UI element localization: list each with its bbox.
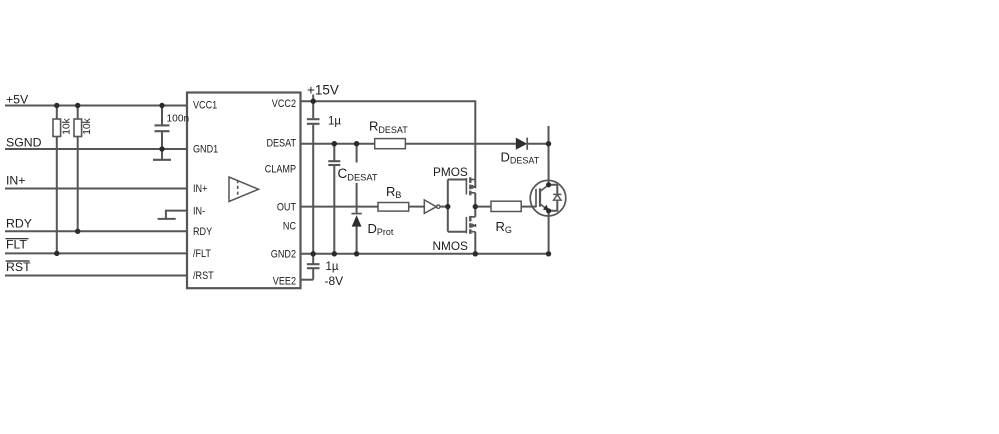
wire IN+ net bbox=[5, 188, 187, 190]
junction driver output node bbox=[473, 204, 478, 209]
svg-text:NC: NC bbox=[283, 221, 296, 233]
wire +5V net bbox=[5, 105, 187, 107]
junction +5V/100n bbox=[159, 103, 164, 108]
wire VCC2 rail down to cap bbox=[312, 101, 314, 118]
junction SGND/100n bbox=[159, 146, 164, 151]
transistor Q3 IGBT with freewheel diode bbox=[530, 180, 566, 216]
junction DESAT/CDESAT bbox=[332, 141, 337, 146]
IC U1 gate driver box bbox=[187, 93, 301, 289]
svg-text:+15V: +15V bbox=[307, 82, 339, 97]
capacitor 100n VCC1-GND1 bbox=[155, 106, 170, 150]
svg-text:DESAT: DESAT bbox=[266, 138, 296, 150]
svg-text:RST: RST bbox=[6, 260, 31, 274]
wire buffer to gate bus bbox=[440, 206, 448, 208]
wire RG to IGBT gate bbox=[521, 206, 536, 208]
transistor Q2 NMOS bbox=[448, 207, 476, 254]
svg-text:SGND: SGND bbox=[6, 136, 42, 150]
junction +5V/R1 bbox=[54, 103, 59, 108]
svg-text:CLAMP: CLAMP bbox=[265, 164, 297, 176]
svg-text:VCC1: VCC1 bbox=[193, 100, 218, 112]
junction GND2/emitter bbox=[546, 251, 551, 256]
wire /RST net bbox=[5, 275, 187, 277]
svg-text:RDY: RDY bbox=[6, 217, 32, 231]
svg-text:NMOS: NMOS bbox=[433, 239, 469, 253]
wire collector stub up bbox=[548, 126, 550, 144]
svg-text:1µ: 1µ bbox=[328, 116, 341, 128]
wire SGND net bbox=[5, 148, 187, 150]
wire gate bus vertical bbox=[447, 180, 449, 232]
junction gate bus bbox=[445, 204, 450, 209]
junction RDY/R2 bbox=[75, 229, 80, 234]
svg-text:IN+: IN+ bbox=[193, 184, 208, 196]
svg-text:RDESAT: RDESAT bbox=[369, 119, 408, 135]
svg-text:10k: 10k bbox=[61, 117, 72, 134]
svg-text:+5V: +5V bbox=[6, 93, 29, 107]
wire DESAT net bbox=[301, 143, 375, 145]
wire /FLT net bbox=[5, 252, 187, 254]
capacitor CDESAT branch bbox=[328, 144, 340, 254]
diode DDESAT bbox=[516, 138, 527, 150]
wire RDY net bbox=[5, 230, 187, 232]
svg-text:RB: RB bbox=[386, 184, 401, 200]
IN- pin tie-low symbol bbox=[158, 211, 187, 219]
svg-text:10k: 10k bbox=[82, 117, 93, 134]
svg-text:VEE2: VEE2 bbox=[273, 276, 297, 288]
junction DESAT/collector bbox=[546, 141, 551, 146]
wire VEE2 pin bbox=[301, 279, 314, 281]
svg-text:IN+: IN+ bbox=[6, 174, 25, 188]
svg-text:VCC2: VCC2 bbox=[272, 98, 297, 110]
junction GND2/CDESAT bbox=[332, 251, 337, 256]
svg-text:/FLT: /FLT bbox=[193, 248, 211, 260]
inverter buffer U2 bbox=[424, 200, 440, 214]
wire IGBT collector from DESAT node bbox=[548, 144, 550, 185]
junction GND2/DProt bbox=[354, 251, 359, 256]
svg-text:GND1: GND1 bbox=[193, 144, 219, 156]
wire DESAT to diode bbox=[405, 143, 515, 145]
resistor pullup 10k to RDY bbox=[74, 106, 82, 232]
svg-text:1µ: 1µ bbox=[326, 261, 339, 273]
svg-text:/RST: /RST bbox=[193, 271, 214, 283]
capacitor C2 1u GND2-VEE2 bbox=[307, 254, 320, 280]
ground symbol below GND1 bbox=[153, 149, 171, 160]
svg-text:DDESAT: DDESAT bbox=[501, 150, 540, 166]
svg-text:100n: 100n bbox=[167, 114, 190, 125]
op-amp U1 internal isolation amplifier triangle bbox=[229, 177, 259, 202]
node FLT label bbox=[6, 238, 29, 252]
junction FLT/R1 bbox=[54, 251, 59, 256]
svg-text:OUT: OUT bbox=[277, 202, 296, 214]
wire VCC2 to +15V rail bbox=[301, 101, 476, 179]
resistor RDESAT bbox=[375, 139, 406, 149]
resistor RB bbox=[378, 203, 409, 212]
svg-text:IN-: IN- bbox=[193, 206, 205, 218]
wire output node to RG bbox=[475, 206, 491, 208]
svg-text:DProt: DProt bbox=[368, 221, 394, 237]
junction +5V/R2 bbox=[75, 103, 80, 108]
capacitor C1 1u VCC2-GND2 bbox=[307, 119, 320, 254]
svg-text:GND2: GND2 bbox=[271, 249, 297, 261]
svg-text:RG: RG bbox=[496, 219, 512, 235]
junction DESAT/DProt bbox=[354, 141, 359, 146]
svg-text:PMOS: PMOS bbox=[433, 165, 468, 179]
wire RB to buffer bbox=[409, 206, 425, 208]
junction GND2/NMOS source bbox=[473, 251, 478, 256]
svg-text:RDY: RDY bbox=[193, 226, 212, 238]
wire IGBT emitter down bbox=[548, 211, 550, 254]
wire diode to collector node bbox=[527, 143, 548, 145]
wire GND2 rail bbox=[301, 253, 549, 255]
junction GND2/C1 bbox=[311, 251, 316, 256]
svg-text:FLT: FLT bbox=[6, 238, 27, 252]
resistor pullup 10k to /FLT bbox=[53, 106, 61, 254]
transistor Q1 PMOS bbox=[448, 177, 476, 206]
node RST label bbox=[6, 260, 32, 274]
svg-text:-8V: -8V bbox=[325, 274, 344, 288]
junction IGBT collector node bbox=[546, 182, 551, 187]
junction VCC2/+15V bbox=[311, 99, 316, 104]
diode DProt branch DESAT to GND2 bbox=[351, 144, 361, 254]
label CDESAT (white bg) bbox=[336, 166, 378, 182]
wire +15V stub bbox=[312, 95, 314, 102]
junction IGBT emitter node bbox=[546, 208, 551, 213]
resistor RG bbox=[491, 201, 521, 211]
wire OUT net bbox=[301, 206, 379, 208]
